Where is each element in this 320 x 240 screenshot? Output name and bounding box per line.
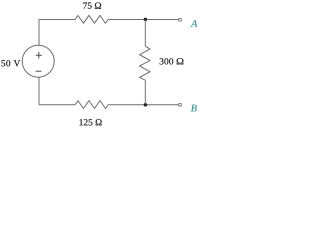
node junction top xyxy=(144,18,148,22)
resistor R3 125ohm zigzag xyxy=(75,101,108,109)
node junction bottom xyxy=(144,103,148,107)
resistor R2 300ohm zigzag xyxy=(140,46,150,80)
terminal B square xyxy=(179,104,182,107)
voltage source minus sign xyxy=(36,70,42,72)
wire left vertical top xyxy=(38,19,40,45)
wire 300ohm top lead xyxy=(144,19,146,46)
wire bottom-right horizontal xyxy=(108,104,178,106)
label A xyxy=(191,20,198,27)
label 125 ohm xyxy=(80,119,102,125)
wire top-right horizontal xyxy=(108,18,178,20)
resistor R1 75ohm zigzag xyxy=(75,15,108,23)
wire bottom-left horizontal xyxy=(39,104,75,106)
label 300 ohm xyxy=(160,58,184,64)
terminal A square xyxy=(179,19,182,22)
wire 300ohm bottom lead xyxy=(144,80,146,105)
voltage source V1 circle xyxy=(22,45,54,77)
label B xyxy=(191,105,197,112)
label 75 ohm xyxy=(83,2,101,8)
wire left vertical bottom xyxy=(38,77,40,105)
label 50 V xyxy=(1,60,20,66)
wire top-left horizontal xyxy=(39,18,75,20)
voltage source plus sign xyxy=(36,52,42,59)
